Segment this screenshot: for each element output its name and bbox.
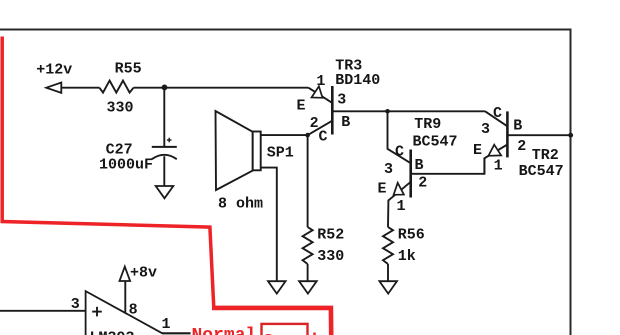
svg-text:TR9: TR9 (414, 116, 441, 133)
capacitor C27 (152, 138, 177, 160)
svg-text:1: 1 (494, 158, 503, 175)
svg-text:8: 8 (129, 302, 138, 319)
svg-text:2: 2 (310, 115, 319, 132)
node D junction dot (568, 133, 573, 138)
svg-text:+12v: +12v (36, 62, 72, 79)
svg-text:3: 3 (71, 296, 80, 313)
wire node A to TR3 emitter diagonal (164, 87, 308, 89)
node A junction dot (162, 85, 168, 91)
svg-text:3: 3 (481, 121, 490, 138)
svg-text:2: 2 (517, 138, 526, 155)
wire R56 to ground (387, 264, 389, 281)
TR2 collector lead (485, 111, 508, 126)
svg-text:330: 330 (317, 248, 344, 265)
transistor TR2 base bar (506, 111, 509, 157)
node +12v arrow (46, 83, 61, 93)
resistor R52 (303, 227, 313, 264)
svg-text:R56: R56 (398, 226, 425, 243)
wire R55 to node A (134, 87, 165, 89)
svg-text:1000uF: 1000uF (99, 157, 153, 174)
wire op-amp output (162, 332, 191, 334)
svg-text:BD140: BD140 (335, 72, 380, 89)
svg-text:E: E (473, 142, 482, 159)
svg-text:1: 1 (316, 73, 325, 90)
node C junction dot (385, 109, 390, 114)
svg-text:C: C (319, 128, 328, 145)
svg-text:C: C (493, 105, 502, 122)
wire op-amp input 3 (0, 310, 86, 312)
TR3 emitter arrow (312, 86, 323, 98)
svg-text:E: E (297, 97, 306, 114)
svg-text:1: 1 (397, 198, 406, 215)
svg-text:BC547: BC547 (413, 134, 458, 151)
svg-text:Normal: Normal (192, 326, 257, 335)
speaker SP1 driver (253, 132, 261, 171)
svg-text:B: B (341, 114, 350, 131)
svg-text:C: C (395, 143, 404, 160)
wire C27 to ground (163, 156, 165, 186)
TR2 emitter arrow (488, 145, 501, 156)
svg-text:E: E (378, 180, 387, 197)
svg-text:R55: R55 (115, 61, 142, 78)
wire node A down to C27 (163, 88, 165, 147)
transistor TR9 base bar (409, 150, 412, 198)
svg-text:2: 2 (418, 174, 427, 191)
op-amp plus input marker (92, 311, 102, 313)
TR9 collector lead (388, 111, 411, 163)
svg-text:3: 3 (337, 92, 346, 109)
svg-text:+8v: +8v (130, 265, 157, 282)
svg-text:B: B (513, 118, 522, 135)
svg-text:BC547: BC547 (519, 163, 564, 180)
ground (R52) (299, 281, 317, 293)
svg-text:R52: R52 (317, 226, 344, 243)
svg-text:3: 3 (384, 161, 393, 178)
TR3 base lead to node C (332, 110, 387, 112)
ground (C27) (156, 186, 174, 198)
TR9 emitter arrow (394, 183, 404, 195)
svg-text:1: 1 (162, 316, 171, 333)
svg-text:1k: 1k (398, 248, 416, 265)
wire node B down to R52 (307, 135, 309, 227)
svg-text:TR2: TR2 (532, 147, 559, 164)
wire red annotation trace (2, 37, 214, 309)
ground (R56) (379, 281, 397, 293)
TR3 emitter lead (308, 88, 332, 103)
red annotation box (262, 324, 308, 335)
svg-text:B: B (415, 157, 424, 174)
ground (speaker) (268, 281, 286, 293)
speaker SP1 cone (216, 111, 253, 190)
TR9 emitter lead (388, 182, 410, 227)
wire SP1 top terminal to node B (261, 134, 308, 136)
svg-text:SP1: SP1 (267, 144, 294, 161)
resistor R56 (383, 227, 393, 264)
TR2 emitter lead (484, 145, 507, 174)
TR9 base lead (411, 158, 485, 174)
transistor TR3 base bar (331, 86, 334, 135)
wire R52 to ground (307, 264, 309, 281)
wire SP1 bottom terminal (261, 168, 277, 282)
TR3 collector lead (308, 121, 333, 135)
svg-text:330: 330 (107, 100, 134, 117)
wire +12v to R55 (61, 87, 99, 89)
svg-text:8 ohm: 8 ohm (218, 196, 263, 213)
TR2 base lead to node D (507, 134, 570, 136)
resistor R55 (99, 81, 133, 93)
op-amp U1 triangle (86, 291, 163, 335)
node +8v arrow (120, 267, 131, 281)
wire +8v to op-amp pin 8 (124, 281, 126, 313)
svg-text:LM393: LM393 (90, 329, 135, 335)
node B junction dot (305, 133, 310, 138)
wire node C to TR2 collector (388, 110, 485, 112)
